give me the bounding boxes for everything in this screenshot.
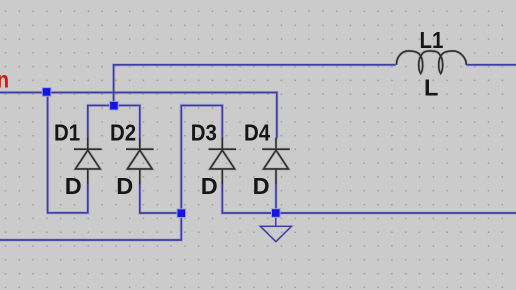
svg-text:D: D: [65, 173, 82, 199]
svg-text:D: D: [253, 173, 270, 199]
svg-text:n: n: [0, 66, 9, 93]
svg-text:D3: D3: [191, 119, 217, 146]
svg-text:D2: D2: [110, 119, 136, 146]
svg-text:L1: L1: [420, 27, 444, 54]
svg-text:L: L: [424, 74, 438, 100]
svg-text:D: D: [116, 173, 133, 199]
svg-text:D: D: [201, 173, 218, 199]
svg-text:D1: D1: [54, 119, 80, 146]
svg-text:D4: D4: [244, 119, 271, 146]
